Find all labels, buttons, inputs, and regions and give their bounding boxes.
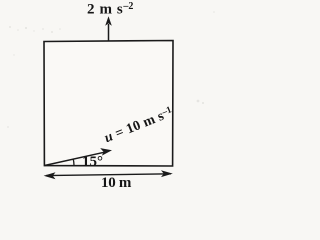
- svg-text:15°: 15°: [82, 154, 103, 170]
- dimension right arrow head: [161, 170, 173, 177]
- acceleration arrow shaft: [108, 24, 110, 42]
- dimension line 10 m: [46, 174, 171, 176]
- velocity arrow shaft: [45, 152, 105, 165]
- svg-text:10 m: 10 m: [101, 175, 132, 189]
- paper background: [0, 0, 228, 189]
- angle arc: [72, 159, 75, 166]
- dimension left arrow head: [44, 172, 56, 179]
- velocity arrow head: [100, 148, 112, 156]
- acceleration arrow head: [105, 16, 112, 26]
- square box (10 m frame): [44, 41, 173, 167]
